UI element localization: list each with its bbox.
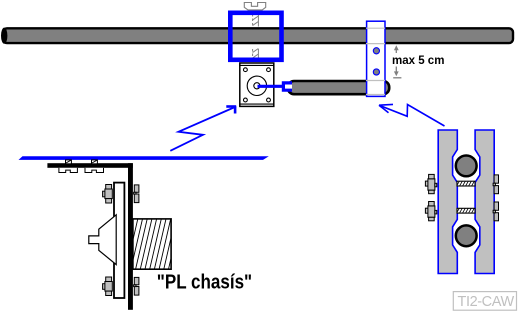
svg-text:TI2-CAW: TI2-CAW: [458, 294, 515, 310]
svg-text:"PL chasís": "PL chasís": [157, 270, 252, 293]
svg-text:max 5 cm: max 5 cm: [392, 55, 444, 67]
